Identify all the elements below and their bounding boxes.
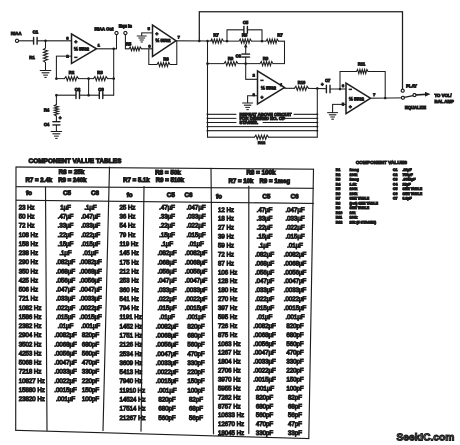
svg-text:R3: R3 xyxy=(336,178,341,182)
svg-text:C3: C3 xyxy=(393,178,398,182)
svg-text:721 Hz: 721 Hz xyxy=(19,296,38,303)
terminal RIAA input xyxy=(11,31,23,42)
svg-text:.01µF: .01µF xyxy=(159,314,175,321)
svg-text:.0022µF: .0022µF xyxy=(156,369,179,376)
svg-text:56pF: 56pF xyxy=(288,412,302,419)
svg-text:.33µF: .33µF xyxy=(159,214,175,221)
svg-text:R7 = 2.4k R9 = 240k: R7 = 2.4k R9 = 240k xyxy=(26,177,88,184)
svg-text:.0033µF: .0033µF xyxy=(54,369,77,376)
svg-text:.0082µF: .0082µF xyxy=(156,323,179,330)
svg-text:+: + xyxy=(349,105,352,110)
svg-text:C6: C6 xyxy=(291,194,300,201)
svg-text:21267 Hz: 21267 Hz xyxy=(120,415,146,422)
svg-text:3970 Hz: 3970 Hz xyxy=(218,377,241,384)
svg-text:½ 5532: ½ 5532 xyxy=(74,45,90,51)
svg-text:Equ In: Equ In xyxy=(119,23,133,28)
svg-text:.0047µF: .0047µF xyxy=(185,278,208,285)
svg-text:5: 5 xyxy=(148,26,151,31)
svg-text:.001µF: .001µF xyxy=(56,396,75,403)
svg-text:C1: C1 xyxy=(33,30,39,35)
resistor R1 xyxy=(29,41,47,63)
svg-text:.0056µF: .0056µF xyxy=(79,277,102,284)
svg-text:.033µF: .033µF xyxy=(157,287,176,294)
svg-text:R7: R7 xyxy=(277,33,283,38)
svg-text:.1µF: .1µF xyxy=(161,241,174,248)
svg-text:SeekIC.com: SeekIC.com xyxy=(397,433,455,444)
svg-text:119 Hz: 119 Hz xyxy=(120,241,139,248)
svg-text:C7: C7 xyxy=(325,78,331,83)
svg-text:238 Hz: 238 Hz xyxy=(19,250,38,257)
svg-text:10633 Hz: 10633 Hz xyxy=(218,412,244,419)
svg-text:.015µF: .015µF xyxy=(81,241,100,248)
svg-text:.15µF: .15µF xyxy=(58,241,74,248)
svg-text:.022µF: .022µF xyxy=(56,305,75,312)
svg-text:8757 Hz: 8757 Hz xyxy=(218,403,241,410)
svg-text:R11: R11 xyxy=(336,216,342,220)
svg-text:+: + xyxy=(261,95,264,100)
svg-text:6: 6 xyxy=(342,83,345,88)
svg-text:R3: R3 xyxy=(97,70,103,75)
svg-text:SEE TABLE: SEE TABLE xyxy=(403,192,423,196)
svg-text:150pF: 150pF xyxy=(187,378,205,385)
table group 3 data xyxy=(218,207,307,437)
svg-text:+: + xyxy=(156,31,159,36)
svg-text:2126 Hz: 2126 Hz xyxy=(120,342,143,349)
op-amp U1 (1/2 5532) xyxy=(66,34,100,64)
wire bus line 3 xyxy=(207,122,319,124)
svg-text:.015µF: .015µF xyxy=(255,305,274,312)
svg-text:39 Hz: 39 Hz xyxy=(218,234,234,241)
svg-text:.0082µF: .0082µF xyxy=(54,332,77,339)
svg-text:C4: C4 xyxy=(44,122,50,127)
svg-text:.015µF: .015µF xyxy=(56,314,75,321)
svg-text:470pF: 470pF xyxy=(256,421,274,428)
svg-text:.056µF: .056µF xyxy=(255,269,274,276)
svg-text:330pF: 330pF xyxy=(187,360,205,367)
svg-text:.0056µF: .0056µF xyxy=(253,341,276,348)
svg-text:145 Hz: 145 Hz xyxy=(120,250,139,257)
svg-text:4253 Hz: 4253 Hz xyxy=(19,351,42,358)
capacitor C1 xyxy=(33,30,39,45)
svg-text:.047µF: .047µF xyxy=(186,204,205,211)
svg-text:.0015µF: .0015µF xyxy=(185,305,208,312)
svg-text:290 Hz: 290 Hz xyxy=(19,259,38,266)
capacitor C3 xyxy=(80,87,114,98)
svg-text:506 Hz: 506 Hz xyxy=(19,287,38,294)
svg-text:−: − xyxy=(349,87,352,92)
capacitor C7 (polarized) xyxy=(321,78,331,93)
svg-text:82pF: 82pF xyxy=(288,394,302,401)
ground at U3 pin 3 xyxy=(243,96,258,110)
op-amp U4 (1/2 5532) xyxy=(342,83,376,114)
svg-text:100pF: 100pF xyxy=(82,396,100,403)
svg-text:220pF: 220pF xyxy=(286,368,304,375)
svg-text:150pF: 150pF xyxy=(286,377,304,384)
svg-text:.0033µF: .0033µF xyxy=(185,287,208,294)
svg-text:.015µF: .015µF xyxy=(186,232,205,239)
svg-text:72 Hz: 72 Hz xyxy=(19,223,35,230)
svg-text:R12: R12 xyxy=(336,221,343,225)
svg-text:72 Hz: 72 Hz xyxy=(218,251,234,258)
wire bus line 4 xyxy=(207,126,319,128)
svg-text:1meg: 1meg xyxy=(350,178,359,182)
svg-text:C5: C5 xyxy=(243,20,249,25)
svg-text:560pF: 560pF xyxy=(256,412,274,419)
svg-text:R1: R1 xyxy=(29,55,35,60)
svg-text:23820 Hz: 23820 Hz xyxy=(19,396,45,403)
svg-text:470pF: 470pF xyxy=(187,351,205,358)
resistor R5 xyxy=(125,41,152,50)
svg-text:3502 Hz: 3502 Hz xyxy=(19,341,42,348)
svg-text:15880 Hz: 15880 Hz xyxy=(19,387,45,394)
svg-text:C2: C2 xyxy=(393,173,398,177)
svg-text:.0082µF: .0082µF xyxy=(79,259,102,266)
svg-text:.033µF: .033µF xyxy=(186,214,205,221)
svg-text:.0082µF: .0082µF xyxy=(185,250,208,257)
wire U2 output run xyxy=(176,40,212,43)
svg-text:(pot) SEE TABLE: (pot) SEE TABLE xyxy=(350,201,379,205)
svg-text:.0015µF: .0015µF xyxy=(156,378,179,385)
svg-text:10k: 10k xyxy=(350,211,356,215)
svg-text:360 Hz: 360 Hz xyxy=(120,287,139,294)
wire C1 to op-amp U1 pin 3 xyxy=(37,40,71,43)
wire flat bypass rail (top) xyxy=(199,12,402,89)
svg-text:68pF: 68pF xyxy=(288,403,302,410)
svg-text:.022µF: .022µF xyxy=(186,223,205,230)
svg-text:1586 Hz: 1586 Hz xyxy=(19,314,42,321)
wire feedback vertical from output xyxy=(113,49,115,95)
svg-text:560pF: 560pF xyxy=(286,341,304,348)
svg-text:.022µF: .022µF xyxy=(81,232,100,239)
svg-text:.022µF: .022µF xyxy=(285,225,304,232)
svg-text:680pF: 680pF xyxy=(256,403,274,410)
table group 2 headers xyxy=(123,170,193,200)
resistor R10 xyxy=(295,80,327,90)
svg-text:820pF: 820pF xyxy=(256,394,274,401)
svg-text:212 Hz: 212 Hz xyxy=(120,268,139,275)
svg-text:820pF: 820pF xyxy=(82,332,100,339)
svg-text:.15µF: .15µF xyxy=(257,234,273,241)
svg-text:.0068µF: .0068µF xyxy=(54,341,77,348)
svg-text:.1µF: .1µF xyxy=(84,204,97,211)
svg-text:.0082µF: .0082µF xyxy=(284,251,307,258)
svg-text:.047µF: .047µF xyxy=(56,287,75,294)
svg-text:C6: C6 xyxy=(236,53,242,58)
svg-text:R5: R5 xyxy=(336,187,341,191)
component values list R column xyxy=(336,168,379,225)
svg-text:.033µF: .033µF xyxy=(255,287,274,294)
svg-text:.22µF: .22µF xyxy=(403,168,413,172)
svg-text:14524 Hz: 14524 Hz xyxy=(120,397,146,404)
svg-text:.047µF: .047µF xyxy=(81,214,100,221)
wire right side down to R9 row xyxy=(284,41,286,63)
svg-text:7940 Hz: 7940 Hz xyxy=(120,378,143,385)
svg-text:25 Hz: 25 Hz xyxy=(120,204,136,211)
wire mid vertical R2R3 to C2C3 xyxy=(88,79,90,96)
svg-text:R9: R9 xyxy=(263,56,269,61)
table group 3 headers xyxy=(216,169,299,200)
svg-text:RIAA Out: RIAA Out xyxy=(95,26,115,31)
wire RIAA to C1 xyxy=(19,40,34,42)
svg-text:1meg: 1meg xyxy=(350,168,359,172)
svg-text:EQUALIZE: EQUALIZE xyxy=(405,105,426,110)
resistor R2 xyxy=(56,70,88,81)
svg-text:½ 5532: ½ 5532 xyxy=(155,37,171,43)
svg-text:.01µF: .01µF xyxy=(287,243,303,250)
svg-text:3609 Hz: 3609 Hz xyxy=(120,360,143,367)
resistor R6 feedback xyxy=(149,41,177,67)
svg-text:54 Hz: 54 Hz xyxy=(120,223,136,230)
svg-text:R10: R10 xyxy=(336,211,343,215)
svg-text:1082 Hz: 1082 Hz xyxy=(19,305,42,312)
svg-text:.47µF: .47µF xyxy=(257,207,273,214)
terminal RIAA Out xyxy=(95,26,119,48)
svg-text:.0068µF: .0068µF xyxy=(156,333,179,340)
svg-text:.056µF: .056µF xyxy=(56,277,75,284)
svg-text:27 Hz: 27 Hz xyxy=(218,225,234,232)
svg-text:.001µF: .001µF xyxy=(186,314,205,321)
svg-text:.01µF: .01µF xyxy=(257,314,273,321)
svg-text:.082µF: .082µF xyxy=(157,250,176,257)
svg-text:.22µF: .22µF xyxy=(159,223,175,230)
svg-text:.0047µF: .0047µF xyxy=(156,351,179,358)
svg-text:1452 Hz: 1452 Hz xyxy=(120,323,143,330)
svg-text:.082µF: .082µF xyxy=(255,251,274,258)
wire bus line 5 xyxy=(207,130,319,132)
svg-text:2534 Hz: 2534 Hz xyxy=(120,351,143,358)
svg-text:875 Hz: 875 Hz xyxy=(218,332,237,339)
svg-text:.068µF: .068µF xyxy=(255,260,274,267)
svg-text:.0056µF: .0056µF xyxy=(284,269,307,276)
svg-text:106 Hz: 106 Hz xyxy=(218,269,237,276)
svg-text:C5: C5 xyxy=(393,187,398,191)
svg-text:STAGES.: STAGES. xyxy=(240,120,259,125)
svg-text:.022µF: .022µF xyxy=(157,296,176,303)
svg-text:RIAA: RIAA xyxy=(11,31,23,36)
svg-text:.022µF: .022µF xyxy=(255,296,274,303)
svg-text:33pF: 33pF xyxy=(288,430,302,437)
capacitor C5 (bridge) xyxy=(227,20,263,42)
svg-text:.0033µF: .0033µF xyxy=(156,360,179,367)
resistor R7 (left) xyxy=(211,33,240,44)
svg-text:R8 = 50k: R8 = 50k xyxy=(155,170,181,177)
resistor R3 xyxy=(89,70,114,81)
svg-text:100pF: 100pF xyxy=(187,387,205,394)
svg-text:595 Hz: 595 Hz xyxy=(218,314,237,321)
svg-text:36 Hz: 36 Hz xyxy=(120,214,136,221)
svg-text:5068 Hz: 5068 Hz xyxy=(19,360,42,367)
svg-text:+: + xyxy=(59,115,62,120)
svg-text:R7: R7 xyxy=(213,33,219,38)
svg-text:128 Hz: 128 Hz xyxy=(218,278,237,285)
svg-text:12670 Hz: 12670 Hz xyxy=(218,421,244,428)
svg-text:20k (5 STAGES): 20k (5 STAGES) xyxy=(350,221,377,225)
wire C6 node down to U3 pin 2 xyxy=(246,64,258,80)
switch contact PLAY xyxy=(401,84,417,93)
svg-text:5413 Hz: 5413 Hz xyxy=(120,369,143,376)
svg-text:.068µF: .068µF xyxy=(157,259,176,266)
resistor R9 (left) xyxy=(206,56,246,66)
ground below C4 xyxy=(51,125,62,138)
component values list C column xyxy=(393,168,423,201)
svg-text:.033µF: .033µF xyxy=(56,296,75,303)
svg-text:.0047µF: .0047µF xyxy=(284,278,307,285)
svg-text:fo: fo xyxy=(26,190,32,197)
svg-text:2: 2 xyxy=(253,73,256,78)
svg-text:.0033µF: .0033µF xyxy=(79,296,102,303)
svg-text:R10: R10 xyxy=(298,80,306,85)
svg-text:79 Hz: 79 Hz xyxy=(120,232,136,239)
svg-text:C5: C5 xyxy=(63,190,72,197)
svg-text:SEE TABLE: SEE TABLE xyxy=(350,206,370,210)
svg-text:.0068µF: .0068µF xyxy=(79,268,102,275)
svg-text:C7: C7 xyxy=(393,197,398,201)
wire C7 to U4 pin 6 xyxy=(330,88,346,91)
svg-text:2382 Hz: 2382 Hz xyxy=(19,323,42,330)
svg-text:R7 = 5.1k R9 = 510k: R7 = 5.1k R9 = 510k xyxy=(123,177,185,184)
svg-text:1191 Hz: 1191 Hz xyxy=(120,314,142,321)
svg-text:.001µF: .001µF xyxy=(157,387,176,394)
svg-text:.0022µF: .0022µF xyxy=(284,296,307,303)
ground below R1 xyxy=(40,63,51,78)
wire bus line 2 xyxy=(207,117,319,119)
wire U1 output to RIAA Out xyxy=(97,48,117,51)
svg-text:.056µF: .056µF xyxy=(157,268,176,275)
op-amp U2 (1/2 5532) xyxy=(148,25,181,57)
svg-text:.47µF: .47µF xyxy=(58,214,74,221)
svg-text:R7 = 10k R9 = 1meg: R7 = 10k R9 = 1meg xyxy=(228,178,290,185)
svg-text:56pF: 56pF xyxy=(189,415,203,422)
svg-text:.0082µF: .0082µF xyxy=(253,323,276,330)
svg-text:R1: R1 xyxy=(336,168,341,172)
svg-text:10827 Hz: 10827 Hz xyxy=(19,378,45,385)
svg-text:.47µF: .47µF xyxy=(159,204,175,211)
svg-text:794 Hz: 794 Hz xyxy=(120,305,139,312)
capacitor C6 xyxy=(236,49,250,65)
svg-text:175 Hz: 175 Hz xyxy=(120,259,139,266)
svg-text:680pF: 680pF xyxy=(82,341,100,348)
svg-text:½ 5532: ½ 5532 xyxy=(349,95,365,101)
svg-text:.15µF: .15µF xyxy=(159,232,175,239)
svg-text:½ 5532: ½ 5532 xyxy=(261,85,277,91)
svg-text:.001µF: .001µF xyxy=(285,314,304,321)
svg-text:.033µF: .033µF xyxy=(81,223,100,230)
svg-text:.0068µF: .0068µF xyxy=(185,259,208,266)
wire U3 output xyxy=(285,87,295,89)
svg-text:.1µF: .1µF xyxy=(258,243,271,250)
svg-text:820pF: 820pF xyxy=(158,397,176,404)
svg-text:253 Hz: 253 Hz xyxy=(120,278,139,285)
svg-text:.33µF: .33µF xyxy=(58,223,74,230)
svg-text:1751 Hz: 1751 Hz xyxy=(120,333,143,340)
svg-text:750pF: 750pF xyxy=(403,173,414,177)
svg-text:.22µF: .22µF xyxy=(257,225,273,232)
svg-text:SEE TABLE: SEE TABLE xyxy=(403,187,423,191)
svg-text:TO VOL/: TO VOL/ xyxy=(435,93,453,98)
svg-text:680pF: 680pF xyxy=(158,406,176,413)
svg-text:.0022µF: .0022µF xyxy=(185,296,208,303)
svg-text:R9: R9 xyxy=(336,206,341,210)
svg-text:820pF: 820pF xyxy=(286,323,304,330)
svg-text:SEE TABLE: SEE TABLE xyxy=(350,197,370,201)
svg-text:COMPONENT VALUE TABLES: COMPONENT VALUE TABLES xyxy=(29,158,123,165)
table group 1 data xyxy=(19,204,102,403)
svg-text:.015µF: .015µF xyxy=(285,234,304,241)
capacitor C4 (polarized) xyxy=(44,115,62,127)
resistor R9 (right) xyxy=(246,56,285,66)
resistor R12 xyxy=(208,135,318,145)
svg-text:.22µF: .22µF xyxy=(58,232,74,239)
svg-text:R11: R11 xyxy=(358,61,366,66)
wire output arrow to vol/bal amp xyxy=(416,92,454,104)
table group 2 data xyxy=(120,204,208,422)
wire U1 pin 2 feedback left xyxy=(56,56,71,79)
svg-text:R8 = 100k: R8 = 100k xyxy=(246,169,276,176)
resistor R7 (right) xyxy=(266,33,285,44)
svg-text:C6: C6 xyxy=(393,192,398,196)
svg-text:330pF: 330pF xyxy=(82,369,100,376)
resistor R11 feedback xyxy=(340,61,387,99)
svg-text:.0051µF: .0051µF xyxy=(403,178,417,182)
svg-text:17514 Hz: 17514 Hz xyxy=(120,406,146,413)
svg-text:270 Hz: 270 Hz xyxy=(218,296,237,303)
svg-text:.1µF: .1µF xyxy=(59,250,72,257)
svg-text:23 Hz: 23 Hz xyxy=(19,204,35,211)
svg-text:C2: C2 xyxy=(75,87,81,92)
svg-text:397 Hz: 397 Hz xyxy=(218,305,237,312)
svg-text:BAL AMP: BAL AMP xyxy=(435,99,454,104)
svg-text:.01µF: .01µF xyxy=(188,241,204,248)
svg-text:22µF: 22µF xyxy=(403,182,412,186)
svg-text:6: 6 xyxy=(148,44,151,49)
svg-text:2706 Hz: 2706 Hz xyxy=(218,368,241,375)
svg-text:18045 Hz: 18045 Hz xyxy=(218,430,244,437)
svg-text:C5: C5 xyxy=(262,194,271,201)
svg-text:fo: fo xyxy=(127,192,133,199)
svg-text:330pF: 330pF xyxy=(256,430,274,437)
svg-text:.0022µF: .0022µF xyxy=(253,368,276,375)
svg-text:−: − xyxy=(74,55,77,60)
svg-text:R6: R6 xyxy=(163,57,169,62)
svg-text:.001µF: .001µF xyxy=(81,323,100,330)
table group 1 headers xyxy=(26,169,100,197)
svg-text:PLAY: PLAY xyxy=(406,84,417,89)
ground at U2 pin 5 xyxy=(137,33,152,42)
svg-text:.0047µF: .0047µF xyxy=(79,287,102,294)
svg-text:1063 Hz: 1063 Hz xyxy=(218,341,241,348)
svg-text:108 Hz: 108 Hz xyxy=(19,232,38,239)
svg-text:.0015µF: .0015µF xyxy=(54,387,77,394)
svg-text:C4: C4 xyxy=(393,182,398,186)
svg-text:.0068µF: .0068µF xyxy=(253,332,276,339)
ground at U4 pin 5 xyxy=(328,104,346,119)
svg-text:R8 = 25k: R8 = 25k xyxy=(59,169,85,176)
svg-text:350 Hz: 350 Hz xyxy=(19,268,38,275)
svg-text:560pF: 560pF xyxy=(187,342,205,349)
svg-text:100pF: 100pF xyxy=(286,385,304,392)
svg-text:68pF: 68pF xyxy=(189,406,203,413)
wire bus vertical left xyxy=(207,41,209,137)
svg-text:.0056µF: .0056µF xyxy=(185,268,208,275)
svg-text:1267 Hz: 1267 Hz xyxy=(218,350,241,357)
svg-text:.0056µF: .0056µF xyxy=(156,342,179,349)
svg-text:5955 Hz: 5955 Hz xyxy=(218,385,241,392)
op-amp U3 (1/2 5532) xyxy=(253,71,285,104)
svg-text:R2: R2 xyxy=(69,70,75,75)
svg-text:.01µF: .01µF xyxy=(83,250,99,257)
svg-text:47pF: 47pF xyxy=(288,421,302,428)
svg-text:C6: C6 xyxy=(91,190,100,197)
